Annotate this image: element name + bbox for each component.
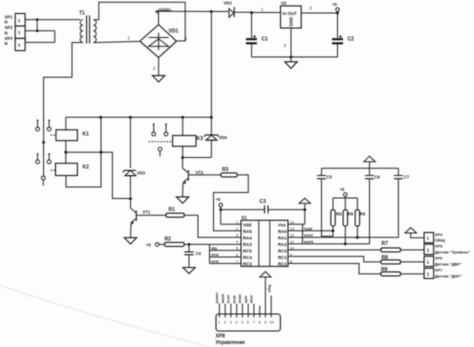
svg-text:C2: C2 <box>348 37 355 43</box>
svg-text:+5: +5 <box>146 242 151 247</box>
svg-text:C4: C4 <box>196 251 202 256</box>
+5 output node <box>332 2 339 38</box>
svg-text:4: 4 <box>236 320 238 324</box>
svg-text:heat: heat <box>233 295 237 303</box>
voltage regulator U2 <box>281 1 338 57</box>
svg-text:T1: T1 <box>79 11 85 17</box>
svg-text:RA2: RA2 <box>278 242 287 247</box>
svg-text:N: N <box>5 30 8 35</box>
ground below bridge <box>152 58 164 83</box>
svg-text:C6: C6 <box>375 174 381 179</box>
svg-text:3: 3 <box>230 320 232 324</box>
svg-text:+5: +5 <box>340 187 345 192</box>
svg-text:10: 10 <box>270 320 274 324</box>
relay K3 <box>173 117 204 157</box>
XP8 pin 3 wire <box>227 295 231 314</box>
relay K2 <box>56 119 102 188</box>
capacitor C3 <box>221 199 305 213</box>
svg-text:5: 5 <box>241 320 243 324</box>
svg-text:1: 1 <box>18 43 21 48</box>
diode VD2 <box>224 1 252 18</box>
svg-text:1: 1 <box>427 236 430 241</box>
transistor VT2 <box>183 158 221 197</box>
svg-text:R7: R7 <box>382 241 389 247</box>
svg-text:work: work <box>303 239 314 244</box>
svg-text:GND: GND <box>289 17 294 27</box>
svg-text:C7: C7 <box>404 174 410 179</box>
svg-text:VD2: VD2 <box>224 1 233 6</box>
svg-text:XP7: XP7 <box>435 268 443 273</box>
wire power rail top <box>156 10 230 13</box>
svg-text:scw: scw <box>211 259 219 264</box>
capacitor C7 <box>357 168 410 237</box>
svg-text:R4: R4 <box>336 212 342 217</box>
svg-text:1: 1 <box>427 247 430 252</box>
wire secondary bottom to bridge pin 1 <box>93 41 139 42</box>
svg-text:K2: K2 <box>83 165 90 171</box>
svg-text:U2: U2 <box>281 1 287 6</box>
wire secondary top to bridge pin 3 <box>93 2 185 41</box>
XP8 pin 4 wire <box>233 295 237 314</box>
svg-text:Датчик "Уровень": Датчик "Уровень" <box>435 249 471 254</box>
svg-text:R6: R6 <box>360 212 366 217</box>
svg-text:heat: heat <box>304 226 313 231</box>
svg-text:XP6: XP6 <box>435 256 443 261</box>
svg-text:9: 9 <box>264 320 266 324</box>
svg-text:RC5: RC5 <box>243 248 252 253</box>
IC D1 microcontroller <box>236 215 294 267</box>
svg-text:Датчик "ДНУ": Датчик "ДНУ" <box>435 273 462 278</box>
ground below C4 <box>183 268 195 274</box>
node labels heat level work <box>288 224 370 244</box>
wire mains vertical with open end <box>41 118 45 186</box>
switch contact S1 (relay K1 contacts) <box>36 120 56 144</box>
svg-text:R3: R3 <box>222 167 229 173</box>
connector XP4 XP5 XP6 XP7 <box>424 232 470 278</box>
resistor R6 <box>355 198 366 239</box>
svg-text:door: door <box>250 294 254 303</box>
capacitor C2 <box>332 35 354 57</box>
svg-text:drain: drain <box>238 293 242 303</box>
capacitor C5 <box>317 168 333 236</box>
resistor R9 <box>381 267 424 276</box>
XP8 pin 9 wire with common triangle <box>260 272 272 314</box>
svg-text:RC1: RC1 <box>278 255 287 260</box>
svg-text:XP5: XP5 <box>435 244 443 249</box>
svg-text:Управление: Управление <box>216 340 246 346</box>
svg-text:RA4: RA4 <box>243 235 252 240</box>
svg-text:N: N <box>5 20 8 25</box>
svg-text:power: power <box>215 292 219 303</box>
svg-text:1: 1 <box>18 30 21 35</box>
svg-text:VT2: VT2 <box>196 170 204 175</box>
svg-text:2: 2 <box>153 66 156 71</box>
svg-text:K3: K3 <box>197 136 204 142</box>
svg-text:R5: R5 <box>348 212 354 217</box>
svg-text:In OUT: In OUT <box>283 11 297 16</box>
wire supply vertical to relay rail <box>210 12 212 118</box>
svg-text:C1: C1 <box>262 37 269 43</box>
svg-text:N: N <box>5 41 8 46</box>
svg-text:Vss: Vss <box>278 222 286 227</box>
svg-text:R2: R2 <box>165 237 172 243</box>
svg-text:VD3: VD3 <box>137 171 146 176</box>
resistor R8 <box>381 255 424 264</box>
XP8 pin 8 wire <box>259 306 261 315</box>
svg-text:XP8: XP8 <box>216 334 226 340</box>
scan fold artifact <box>0 284 213 347</box>
svg-text:RC4: RC4 <box>243 255 252 260</box>
svg-text:1: 1 <box>261 7 264 12</box>
wire K1-K2 junction to VT1 collector <box>66 151 131 199</box>
svg-text:7: 7 <box>253 320 255 324</box>
svg-text:R1: R1 <box>169 207 176 213</box>
transformer T1 <box>79 11 96 44</box>
svg-text:1: 1 <box>427 271 430 276</box>
ground below regulator <box>252 56 338 69</box>
svg-text:2: 2 <box>224 320 226 324</box>
resistor R5 <box>343 210 354 246</box>
wire VD2 to regulator <box>250 7 280 14</box>
svg-text:dig: dig <box>211 245 218 250</box>
svg-text:RA3: RA3 <box>243 242 252 247</box>
svg-text:dcw: dcw <box>211 252 220 257</box>
wire RC2 to R9 <box>288 264 381 274</box>
svg-text:8: 8 <box>259 320 261 324</box>
XP8 pin 2 wire <box>221 293 225 314</box>
svg-text:общ: общ <box>268 284 272 293</box>
svg-text:spin: spin <box>244 295 248 303</box>
zener diode VD3 <box>123 118 146 197</box>
svg-text:RA1: RA1 <box>278 235 287 240</box>
ground below VT2 <box>176 197 188 203</box>
common triangle above XP4 <box>405 228 424 238</box>
svg-text:1: 1 <box>218 320 220 324</box>
svg-text:RA5: RA5 <box>243 229 252 234</box>
svg-text:D1: D1 <box>242 215 248 220</box>
capacitor bus with common triangle <box>322 156 399 168</box>
switch contact S3 (relay K3 contacts) <box>149 123 173 156</box>
svg-text:1: 1 <box>427 259 430 264</box>
svg-text:VD1: VD1 <box>169 29 179 35</box>
svg-text:level: level <box>304 232 313 237</box>
svg-text:wash: wash <box>221 293 225 304</box>
diode VD4 <box>204 117 227 157</box>
svg-text:1: 1 <box>18 18 21 23</box>
svg-text:2: 2 <box>236 227 238 231</box>
power net label <box>156 7 173 25</box>
resistor R2 <box>146 237 241 248</box>
svg-text:XP4: XP4 <box>435 232 443 237</box>
XP8 pin 5 wire <box>238 293 242 314</box>
svg-text:RC0: RC0 <box>278 248 287 253</box>
wire K3 VD4 bottom to VT2 collector <box>181 156 211 159</box>
XP8 pin 10 wire <box>270 296 272 315</box>
resistor R7 <box>381 241 424 252</box>
svg-text:+5: +5 <box>216 197 221 202</box>
svg-text:RA0: RA0 <box>278 229 287 234</box>
XP8 pin 7 wire <box>250 294 254 314</box>
svg-text:C5: C5 <box>327 174 333 179</box>
connector XP1 XP2 XP3 <box>5 14 26 51</box>
+5 node at D1 pin 1 <box>216 197 242 224</box>
svg-text:level: level <box>227 295 231 303</box>
svg-text:RC2: RC2 <box>278 262 287 267</box>
relay K1 <box>56 117 89 163</box>
svg-text:K1: K1 <box>83 132 90 138</box>
ground below VT1 <box>124 238 136 244</box>
capacitor C6 <box>365 168 381 244</box>
XP8 pin 1 wire <box>215 292 219 314</box>
svg-text:Датчик "ДВУ": Датчик "ДВУ" <box>435 261 462 266</box>
wire RC0 to R7 <box>288 249 381 251</box>
XP8 pin 6 wire <box>244 295 248 314</box>
svg-text:6: 6 <box>247 320 249 324</box>
capacitor C1 <box>246 13 268 57</box>
switch contact S2 (relay K2 contacts) <box>36 153 55 170</box>
resistor R3 <box>214 167 249 231</box>
resistor R1 <box>166 207 241 238</box>
bridge rectifier VD1 <box>128 25 188 71</box>
svg-text:VD4: VD4 <box>219 135 228 140</box>
wire RC1 to R8 <box>288 256 381 262</box>
svg-text:2: 2 <box>310 6 313 11</box>
resistor R4 <box>331 198 342 236</box>
wire relay supply rail <box>66 116 213 119</box>
transistor VT1 <box>129 197 166 237</box>
svg-text:3: 3 <box>236 234 238 238</box>
svg-text:3: 3 <box>185 36 188 41</box>
capacitor C4 <box>184 244 201 267</box>
svg-text:3: 3 <box>284 43 287 48</box>
svg-text:Vdd: Vdd <box>243 222 252 227</box>
svg-text:VT1: VT1 <box>143 210 151 215</box>
svg-text:RC3: RC3 <box>243 262 252 267</box>
svg-text:ОБЩ: ОБЩ <box>435 238 446 243</box>
node labels dig dcw scw <box>210 244 242 264</box>
+5 node for pull-ups <box>333 187 357 210</box>
svg-text:C3: C3 <box>260 199 267 205</box>
wire primary bottom to switches <box>44 43 83 121</box>
connector XP8 <box>216 314 281 346</box>
svg-text:1: 1 <box>128 36 131 41</box>
svg-text:4: 4 <box>236 240 238 244</box>
common node triangle at D1 Vss <box>288 198 311 224</box>
wire connector pins to transformer <box>25 18 80 42</box>
svg-text:+5: +5 <box>332 2 337 7</box>
